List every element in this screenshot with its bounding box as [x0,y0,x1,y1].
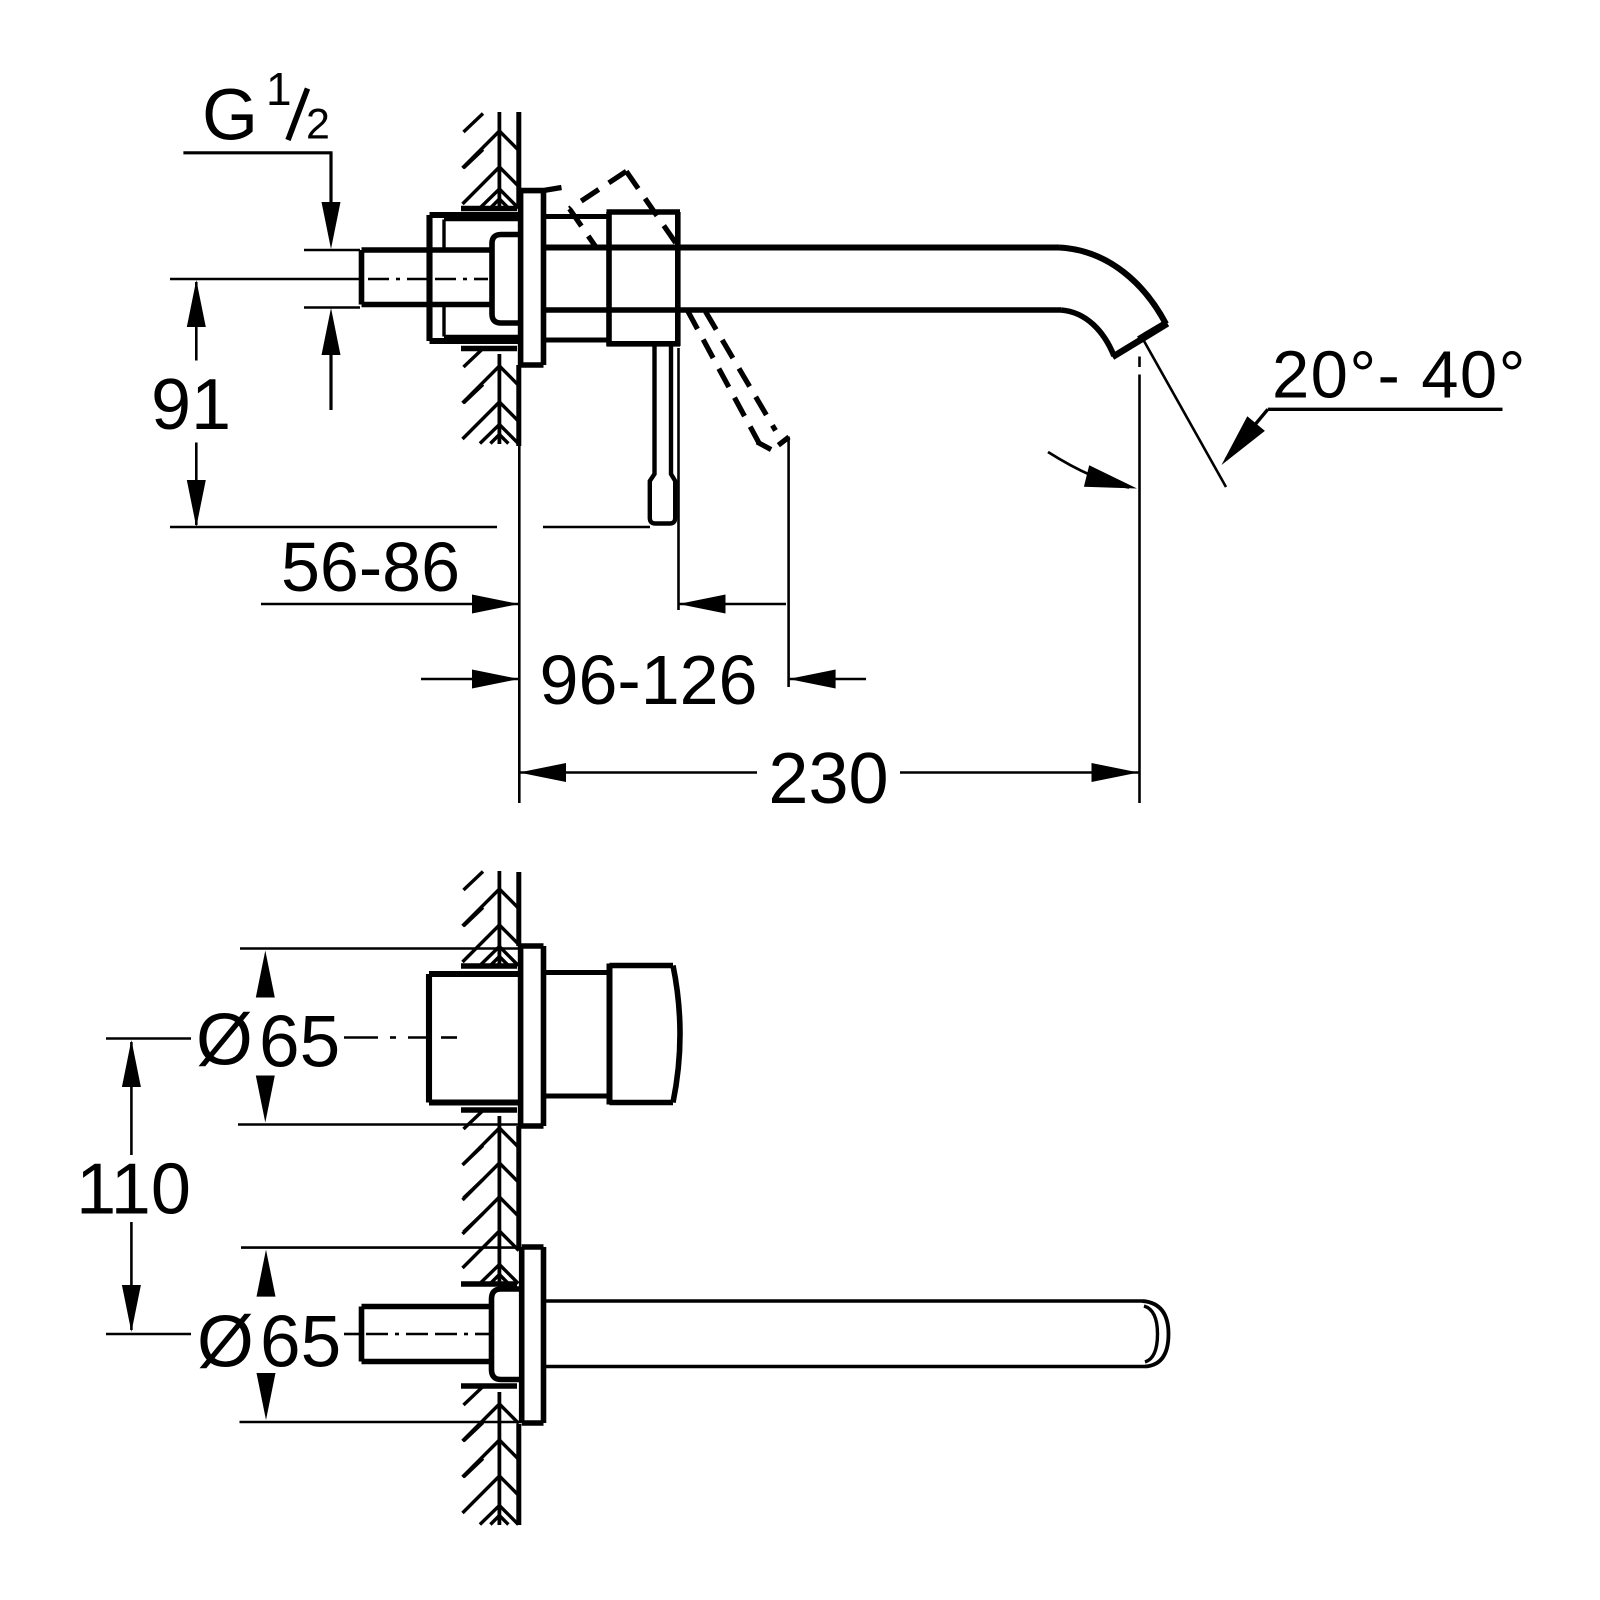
svg-text:20°- 40°: 20°- 40° [1272,338,1527,413]
svg-text:G: G [202,75,258,155]
svg-text:56-86: 56-86 [281,528,460,606]
svg-text:2: 2 [306,101,330,149]
svg-text:96-126: 96-126 [540,641,758,719]
svg-text:65: 65 [260,1302,341,1383]
svg-text:1: 1 [266,63,292,115]
svg-text:110: 110 [76,1150,191,1230]
svg-text:65: 65 [259,1002,340,1083]
svg-text:Ø: Ø [197,1302,254,1383]
svg-text:230: 230 [768,739,888,819]
svg-text:Ø: Ø [196,1000,253,1081]
svg-text:91: 91 [151,365,231,445]
